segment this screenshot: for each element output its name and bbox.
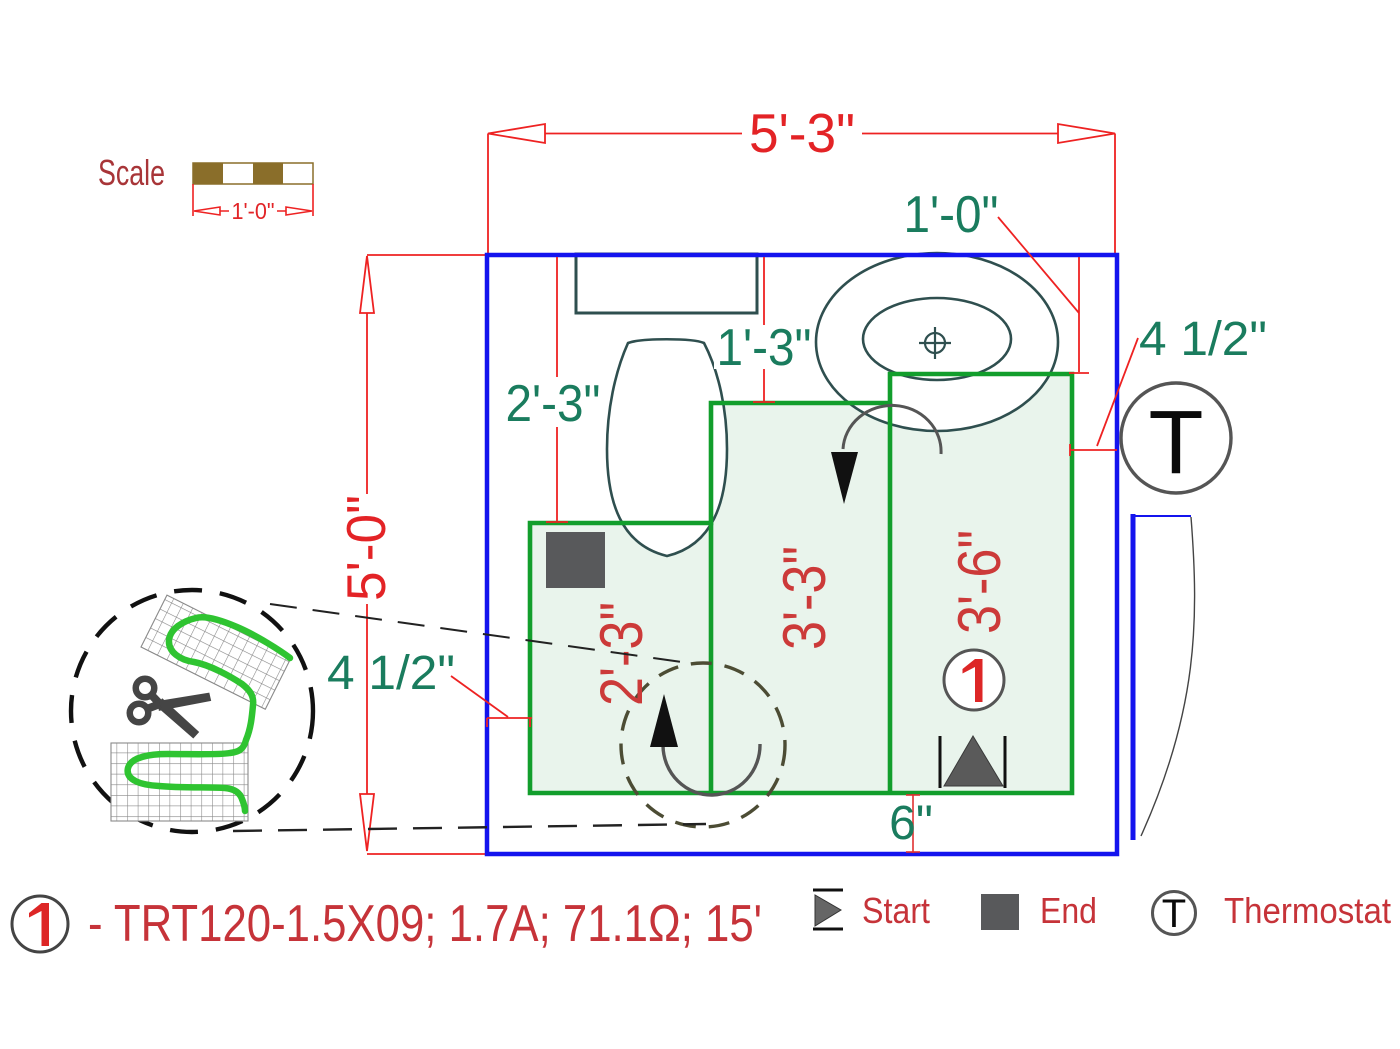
scale bar bbox=[193, 163, 313, 184]
sink outer bowl bbox=[816, 253, 1058, 431]
curved routing arrow arc near sink bbox=[843, 405, 941, 454]
mesh sample upper (rotated) bbox=[141, 595, 291, 709]
mat divider middle/right bbox=[888, 403, 893, 793]
svg-text:- TRT120-1.5X09; 1.7A; 71.1Ω;: - TRT120-1.5X09; 1.7A; 71.1Ω; 15' bbox=[88, 895, 762, 953]
green text 2'-3" bbox=[503, 377, 603, 427]
cable loop arc in dashed circle bbox=[663, 744, 760, 795]
door jamb line bbox=[1131, 515, 1191, 517]
legend thermostat icon bbox=[1153, 892, 1196, 935]
red dim line 2'-3" bbox=[546, 257, 568, 522]
svg-text:Scale: Scale bbox=[98, 152, 165, 193]
svg-text:4 1/2": 4 1/2" bbox=[1139, 313, 1267, 366]
thermostat symbol bbox=[1121, 383, 1231, 493]
svg-text:4 1/2": 4 1/2" bbox=[327, 647, 455, 700]
end marker square in mat bbox=[546, 532, 605, 588]
sink inner bowl bbox=[863, 298, 1011, 380]
scissors icon bbox=[130, 679, 211, 739]
detail balloon dashed circle bbox=[71, 590, 313, 832]
scale dimension 1'-0" bbox=[193, 184, 313, 216]
green heating cable serpentine bbox=[128, 617, 290, 811]
mat divider left/middle bbox=[709, 523, 714, 793]
svg-text:T: T bbox=[1162, 892, 1186, 936]
svg-text:1'-0": 1'-0" bbox=[232, 198, 275, 224]
svg-text:T: T bbox=[1149, 393, 1204, 493]
red dim line 1'-0" with leader bbox=[998, 217, 1089, 373]
svg-text:3'-3": 3'-3" bbox=[771, 546, 838, 650]
legend end icon bbox=[981, 894, 1019, 930]
svg-text:5'-0": 5'-0" bbox=[335, 495, 397, 601]
down arrow middle mat bbox=[831, 452, 858, 504]
red dim line 1'-3" bbox=[753, 257, 775, 402]
svg-text:Start: Start bbox=[862, 890, 930, 931]
up arrow left mat bbox=[650, 694, 678, 747]
dimension 5'-0" left bbox=[360, 255, 488, 854]
legend start icon bbox=[813, 890, 843, 929]
toilet bbox=[607, 339, 727, 556]
svg-text:Thermostat: Thermostat bbox=[1224, 890, 1391, 931]
dashed detail circle in mat bbox=[621, 663, 785, 827]
svg-text:1'-0": 1'-0" bbox=[904, 186, 999, 244]
start marker in mat bbox=[940, 736, 1005, 788]
red leader 4 1/2 inch right bbox=[1070, 338, 1138, 456]
door swing arc bbox=[1141, 517, 1195, 836]
mat id circle 1 bbox=[944, 650, 1004, 710]
heating mat fill bbox=[530, 374, 1072, 793]
room outline bbox=[487, 255, 1117, 854]
svg-text:1'-3": 1'-3" bbox=[717, 319, 812, 377]
vanity counter bbox=[576, 254, 757, 313]
green text 1'-3" bbox=[714, 325, 814, 369]
red dim 6" bottom bbox=[906, 794, 920, 853]
legend id circle 1 bbox=[12, 896, 68, 952]
mesh sample lower bbox=[111, 743, 248, 821]
red leader 4 1/2 inch left bbox=[451, 676, 532, 727]
svg-text:3'-6": 3'-6" bbox=[946, 530, 1013, 634]
dashed connector top bbox=[270, 604, 682, 662]
svg-text:End: End bbox=[1040, 890, 1097, 931]
heating mat outline bbox=[530, 374, 1072, 793]
svg-text:2'-3": 2'-3" bbox=[506, 375, 601, 433]
door leaf bbox=[1131, 514, 1136, 840]
dimension 5'-3" top bbox=[488, 124, 1115, 256]
svg-text:5'-3": 5'-3" bbox=[749, 102, 855, 164]
svg-text:6": 6" bbox=[889, 797, 933, 850]
dashed connector bottom bbox=[233, 824, 706, 831]
sink drain crosshair bbox=[919, 327, 951, 359]
